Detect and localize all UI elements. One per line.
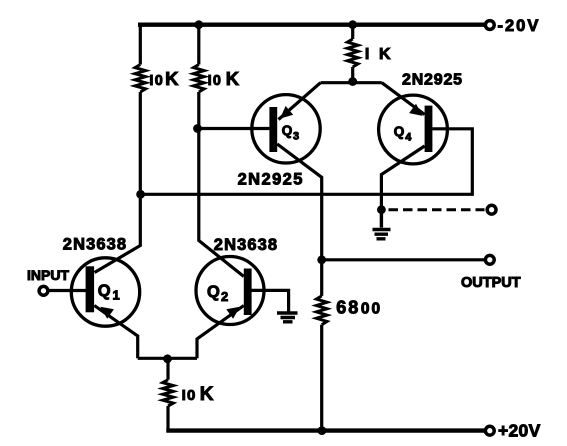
transistor Q4 emitter arrow bbox=[409, 104, 423, 116]
svg-text:2N3638: 2N3638 bbox=[214, 236, 278, 254]
wire bottom supply rail bbox=[166, 428, 484, 432]
node junction dot emitters / R5 bbox=[163, 354, 172, 363]
wire emitter join horizontal bbox=[138, 357, 197, 360]
node junction dot rail/1K bbox=[348, 20, 357, 29]
wire top supply rail bbox=[138, 23, 484, 27]
transistor Q3 base bar bbox=[269, 107, 277, 152]
wire Q1 emitter diagonal bbox=[94, 306, 137, 359]
svg-text:2N2925: 2N2925 bbox=[402, 71, 463, 88]
transistor Q2 circle bbox=[196, 257, 264, 325]
terminal +20V bbox=[485, 426, 494, 435]
transistor Q1 base bar bbox=[86, 266, 95, 312]
wire OUTPUT line bbox=[322, 258, 485, 261]
transistor Q1 emitter arrow bbox=[100, 307, 114, 319]
wire Q3 base line from R2 branch bbox=[198, 127, 270, 130]
resistor R3 1K bbox=[347, 39, 358, 67]
svg-text:+20V: +20V bbox=[498, 421, 541, 441]
svg-text:1: 1 bbox=[113, 288, 120, 303]
wire Q3 emitter diagonal to output node bbox=[277, 144, 322, 431]
node junction dot Q1-collector / feedback bbox=[136, 190, 145, 199]
svg-text:OUTPUT: OUTPUT bbox=[461, 275, 521, 291]
svg-text:Q: Q bbox=[394, 124, 405, 139]
resistor R4 6800 bbox=[316, 296, 327, 325]
node junction dot output bbox=[317, 255, 326, 264]
transistor Q3 emitter arrow bbox=[280, 106, 293, 119]
node junction dot bottom rail / R4 bbox=[318, 426, 327, 435]
svg-text:I0K: I0K bbox=[182, 384, 215, 405]
terminal OUTPUT bbox=[485, 255, 494, 264]
wire 1K branch from rail bbox=[351, 25, 354, 82]
node junction dot Q3 base tap bbox=[193, 124, 202, 133]
transistor Q2 base bar bbox=[244, 269, 252, 316]
svg-text:INPUT: INPUT bbox=[27, 267, 69, 283]
wire Q2 base line to ground bbox=[251, 290, 288, 312]
svg-text:I0K: I0K bbox=[149, 68, 179, 89]
terminal INPUT bbox=[39, 286, 48, 295]
svg-text:-20V: -20V bbox=[498, 17, 541, 35]
svg-text:2N2925: 2N2925 bbox=[238, 171, 304, 189]
node junction dot rail/R2 bbox=[194, 20, 203, 29]
terminal -20V bbox=[485, 21, 494, 30]
wire Q4 collector diagonal bbox=[382, 83, 425, 115]
resistor R1 10K bbox=[135, 65, 146, 93]
transistor Q4 circle bbox=[379, 95, 448, 164]
node junction dot below 1K bbox=[348, 77, 357, 86]
wire Q3 collector diagonal bbox=[279, 83, 321, 120]
svg-text:I0K: I0K bbox=[208, 68, 241, 89]
wire dashed line to terminal bbox=[389, 208, 485, 211]
transistor Q3 circle bbox=[252, 95, 320, 163]
svg-text:Q: Q bbox=[282, 123, 293, 138]
transistor Q4 base bar bbox=[425, 106, 433, 152]
wire second branch vertical (R2 to Q2 collector) bbox=[199, 25, 244, 277]
wire Q1 base line bbox=[49, 289, 87, 292]
transistor Q1 circle bbox=[71, 258, 139, 326]
resistor R5 10K bbox=[163, 380, 174, 406]
ground symbol at Q4 emitter bbox=[373, 210, 391, 239]
svg-text:2N3638: 2N3638 bbox=[63, 235, 127, 253]
svg-text:Q: Q bbox=[98, 282, 111, 300]
svg-text:2: 2 bbox=[221, 289, 228, 304]
svg-text:IK: IK bbox=[365, 46, 391, 63]
node junction dot Q4 emitter / dashed tap bbox=[377, 205, 386, 214]
wire Q2 emitter diagonal bbox=[197, 306, 244, 359]
wire collector bus Q3-Q4 horizontal bbox=[321, 81, 382, 84]
resistor R2 10K bbox=[194, 65, 205, 93]
svg-text:3: 3 bbox=[293, 130, 299, 142]
terminal dashed output bbox=[487, 205, 496, 214]
wire Q4 base feedback to Q1 collector line bbox=[141, 129, 473, 195]
transistor Q2 emitter arrow bbox=[226, 307, 240, 319]
wire left branch vertical (R1 to Q1 collector) bbox=[95, 23, 141, 273]
svg-text:4: 4 bbox=[405, 132, 412, 144]
wire R5 branch down to bottom rail bbox=[166, 359, 169, 431]
svg-text:6800: 6800 bbox=[336, 298, 382, 318]
ground symbol at Q2 base bbox=[277, 313, 298, 322]
svg-text:Q: Q bbox=[207, 283, 220, 301]
wire Q4 emitter diagonal to ground bbox=[381, 146, 424, 210]
